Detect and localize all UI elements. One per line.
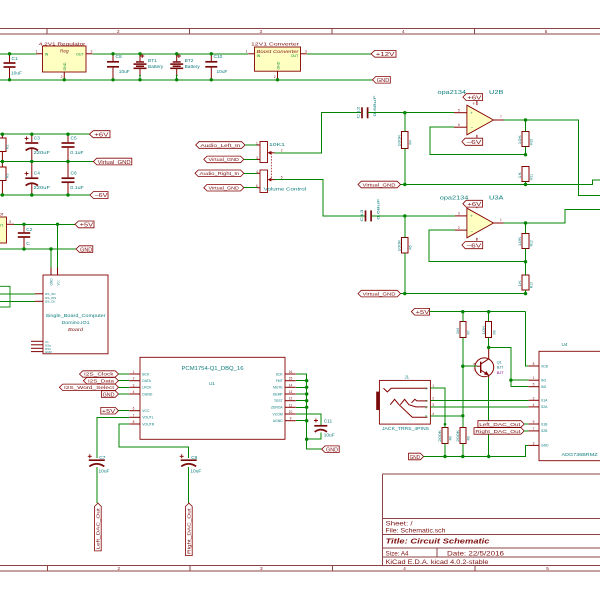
resistor R9 bbox=[456, 428, 471, 457]
svg-text:J1: J1 bbox=[405, 374, 410, 379]
svg-text:Virtual_GND: Virtual_GND bbox=[209, 186, 240, 191]
wire Virtual_GND row lower bbox=[401, 293, 526, 295]
svg-text:C10: C10 bbox=[214, 54, 223, 60]
wire collector to IN1/IN2 bbox=[489, 348, 529, 387]
global label Audio_Left_In bbox=[196, 142, 260, 149]
svg-text:GND: GND bbox=[63, 62, 67, 70]
svg-text:ADG736BRMZ: ADG736BRMZ bbox=[562, 452, 598, 457]
svg-text:PCM1754-Q1_DBQ_16: PCM1754-Q1_DBQ_16 bbox=[182, 366, 244, 372]
svg-text:Reg: Reg bbox=[60, 48, 69, 54]
svg-text:R13: R13 bbox=[530, 282, 534, 288]
svg-text:R8: R8 bbox=[449, 436, 453, 440]
svg-text:220uF: 220uF bbox=[34, 150, 51, 156]
junction dots U3A bbox=[403, 214, 527, 295]
svg-text:C4: C4 bbox=[34, 171, 40, 177]
capacitor C9 bbox=[180, 454, 202, 503]
op-amp U2B bbox=[438, 90, 505, 142]
svg-text:C2: C2 bbox=[26, 227, 32, 233]
svg-text:−6V: −6V bbox=[466, 243, 482, 249]
wire bottom GND rail bbox=[0, 79, 373, 81]
svg-text:4: 4 bbox=[402, 29, 405, 34]
svg-text:16: 16 bbox=[289, 370, 293, 374]
svg-text:AGND: AGND bbox=[273, 419, 283, 423]
svg-text:2: 2 bbox=[274, 75, 276, 79]
global label Virtual_GND (pot 2) bbox=[204, 184, 260, 191]
resistor R4 bbox=[398, 113, 413, 185]
power flag +6V (U3A) bbox=[463, 200, 483, 208]
svg-text:U3A: U3A bbox=[489, 195, 504, 201]
svg-text:2: 2 bbox=[118, 566, 121, 571]
svg-text:GND: GND bbox=[541, 444, 549, 448]
wire Virtual_GND rail bbox=[0, 161, 93, 163]
svg-text:4: 4 bbox=[133, 390, 135, 394]
pot gang link bbox=[270, 153, 272, 179]
wire U2B output bbox=[504, 120, 600, 196]
svg-text:C9: C9 bbox=[191, 455, 197, 461]
power flag +6V (U2B) bbox=[463, 94, 483, 102]
svg-text:Size: A4: Size: A4 bbox=[386, 551, 410, 557]
U1 left pin stubs bbox=[129, 370, 140, 424]
svg-text:or: or bbox=[0, 212, 4, 218]
svg-text:R5: R5 bbox=[409, 245, 413, 249]
svg-text:U1: U1 bbox=[209, 381, 215, 386]
svg-text:+12V: +12V bbox=[376, 52, 395, 58]
svg-text:4.2V1 Regulator: 4.2V1 Regulator bbox=[39, 41, 86, 47]
svg-text:IN: IN bbox=[257, 54, 261, 58]
svg-text:Domino.IO1: Domino.IO1 bbox=[62, 320, 91, 325]
svg-text:R9: R9 bbox=[466, 436, 470, 440]
global label Right_DAC_Out (vertical) bbox=[186, 503, 193, 555]
transistor Q1 bbox=[463, 349, 504, 457]
svg-text:1: 1 bbox=[36, 50, 38, 54]
svg-text:4: 4 bbox=[256, 170, 258, 174]
svg-text:9: 9 bbox=[290, 417, 292, 421]
svg-text:ZEROA: ZEROA bbox=[271, 406, 283, 410]
svg-text:IN1: IN1 bbox=[541, 379, 546, 383]
svg-text:3: 3 bbox=[256, 156, 258, 160]
svg-text:MUTE: MUTE bbox=[273, 386, 283, 390]
wire VOUTL to C7 bbox=[97, 417, 129, 458]
capacitor C6 bbox=[62, 162, 84, 196]
svg-text:T: T bbox=[425, 399, 427, 403]
power flag +5V (VCC pin) bbox=[101, 407, 129, 415]
svg-text:R2: R2 bbox=[6, 145, 10, 149]
wire jack sleeve to R8 bbox=[430, 388, 445, 424]
wire jack tip to S1A bbox=[430, 399, 528, 401]
svg-text:3: 3 bbox=[260, 29, 263, 34]
svg-text:10: 10 bbox=[289, 410, 293, 414]
svg-text:Right_DAC_Out: Right_DAC_Out bbox=[187, 508, 192, 554]
svg-text:3: 3 bbox=[91, 50, 93, 54]
svg-text:S: S bbox=[425, 386, 427, 390]
svg-text:GND: GND bbox=[410, 455, 421, 461]
svg-text:B: B bbox=[474, 362, 476, 366]
svg-text:4: 4 bbox=[403, 566, 406, 571]
junction dots U1 gnd bus bbox=[305, 379, 308, 441]
svg-text:3: 3 bbox=[260, 566, 263, 571]
wire U1 gnd bus vertical bbox=[296, 374, 307, 439]
resistor R11 bbox=[518, 167, 534, 185]
audio jack J1 bbox=[376, 374, 434, 431]
svg-text:R3: R3 bbox=[6, 174, 10, 178]
svg-text:C6: C6 bbox=[71, 171, 77, 177]
svg-text:C3: C3 bbox=[34, 136, 40, 142]
svg-text:+5V: +5V bbox=[416, 310, 430, 316]
wire to GND flag under U1 bbox=[307, 439, 322, 449]
svg-text:C8: C8 bbox=[116, 54, 122, 60]
svg-text:100K: 100K bbox=[398, 238, 402, 251]
capacitor C1 bbox=[4, 54, 23, 80]
regulator REG 4.2V1 bbox=[36, 41, 93, 79]
svg-text:VCOM: VCOM bbox=[273, 412, 283, 416]
svg-text:DATA: DATA bbox=[142, 379, 151, 383]
svg-text:R11: R11 bbox=[530, 174, 534, 180]
wire VCOM to C11 bbox=[296, 414, 321, 425]
svg-text:S1A: S1A bbox=[541, 399, 548, 403]
wire I2S data lines bbox=[0, 293, 35, 295]
svg-text:SCK: SCK bbox=[276, 372, 284, 376]
svg-text:10uF: 10uF bbox=[324, 432, 335, 438]
svg-text:2: 2 bbox=[458, 226, 460, 230]
svg-text:opa2134: opa2134 bbox=[438, 90, 467, 96]
battery BT2 bbox=[170, 54, 200, 80]
svg-text:+5V: +5V bbox=[80, 223, 94, 229]
svg-text:+: + bbox=[470, 110, 473, 115]
svg-text:Virtual_GND: Virtual_GND bbox=[209, 157, 240, 162]
svg-text:Single_Board_Computer: Single_Board_Computer bbox=[46, 313, 107, 318]
svg-text:C11: C11 bbox=[324, 419, 333, 425]
svg-text:DGND: DGND bbox=[142, 392, 153, 396]
wire -6V rail bbox=[0, 194, 90, 196]
power flag Virtual_GND (left) bbox=[93, 158, 131, 166]
svg-text:BT1: BT1 bbox=[148, 58, 157, 64]
svg-text:7: 7 bbox=[500, 115, 502, 119]
wire +6V rail bbox=[0, 133, 90, 135]
svg-text:R7: R7 bbox=[466, 330, 470, 334]
wire jack pin4 bbox=[430, 415, 462, 417]
svg-text:I2S_Word_Select: I2S_Word_Select bbox=[64, 385, 115, 390]
svg-text:10K: 10K bbox=[518, 134, 522, 145]
svg-text:1: 1 bbox=[533, 376, 535, 380]
svg-text:3: 3 bbox=[533, 441, 535, 445]
potentiometer 10K1 section B bbox=[256, 170, 306, 193]
global label Left_DAC_Out (vertical) bbox=[95, 503, 102, 551]
wire U3A output bbox=[504, 209, 600, 223]
svg-text:R6: R6 bbox=[492, 330, 496, 334]
resistor R6 bbox=[482, 312, 497, 349]
svg-text:Q1: Q1 bbox=[497, 361, 502, 365]
wire top rail mid bbox=[92, 53, 248, 55]
wire wiper A to C12 bbox=[275, 113, 362, 153]
capacitor C11 bbox=[307, 419, 335, 440]
svg-text:GND: GND bbox=[80, 247, 92, 253]
global label Audio_Right_In bbox=[195, 170, 260, 177]
power flag +5V (right) bbox=[411, 308, 430, 316]
svg-text:S2A: S2A bbox=[541, 405, 548, 409]
svg-text:IN: IN bbox=[45, 53, 49, 57]
svg-text:C5: C5 bbox=[71, 136, 77, 142]
svg-text:Volume Control: Volume Control bbox=[264, 187, 307, 193]
wire C12 to op-amp input bbox=[368, 112, 454, 114]
wire TEST row bbox=[296, 400, 307, 402]
svg-text:3: 3 bbox=[458, 212, 460, 216]
svg-text:Virtual_GND: Virtual_GND bbox=[363, 182, 397, 187]
svg-text:VDD: VDD bbox=[541, 364, 549, 368]
power flag -6V bbox=[90, 192, 108, 200]
svg-text:FMT: FMT bbox=[276, 379, 283, 383]
resistor R12 bbox=[518, 223, 534, 262]
svg-text:GND: GND bbox=[326, 447, 338, 453]
svg-text:200K: 200K bbox=[456, 429, 460, 442]
svg-text:10uF: 10uF bbox=[217, 69, 228, 75]
svg-text:I2S_Clock: I2S_Clock bbox=[84, 372, 114, 377]
svg-text:1M: 1M bbox=[456, 328, 460, 334]
svg-text:10K1: 10K1 bbox=[269, 142, 286, 147]
svg-text:R10: R10 bbox=[530, 139, 534, 145]
wire jack ring to S2A bbox=[430, 406, 528, 408]
svg-text:11: 11 bbox=[289, 403, 293, 407]
capacitor C4 bbox=[25, 162, 50, 196]
svg-text:15: 15 bbox=[289, 377, 293, 381]
svg-text:VOUTL: VOUTL bbox=[142, 416, 153, 420]
wire DEMP row bbox=[296, 393, 307, 395]
global label Right_DAC_Out (to U4) bbox=[474, 428, 529, 435]
svg-text:C13: C13 bbox=[359, 208, 364, 221]
svg-text:U2B: U2B bbox=[489, 90, 504, 96]
power flag GND (bottom right) bbox=[409, 453, 424, 461]
resistor R7 bbox=[456, 312, 471, 428]
svg-text:R4: R4 bbox=[409, 140, 413, 144]
wire wiper B to C13 bbox=[275, 180, 365, 216]
svg-text:Battery: Battery bbox=[148, 64, 164, 70]
svg-text:Vcc: Vcc bbox=[56, 280, 60, 286]
svg-text:opa2134: opa2134 bbox=[440, 195, 469, 201]
resistor R2 bbox=[0, 134, 10, 161]
svg-text:−6V: −6V bbox=[466, 140, 482, 146]
resistor R10 bbox=[518, 120, 534, 155]
capacitor C12 bbox=[356, 95, 377, 119]
capacitor C7 bbox=[88, 454, 110, 503]
junction dots U2B bbox=[403, 111, 527, 186]
svg-text:2: 2 bbox=[533, 396, 535, 400]
resistor R8 bbox=[438, 424, 453, 456]
svg-text:5: 5 bbox=[281, 176, 283, 180]
capacitor C5 bbox=[62, 134, 84, 161]
global label I2S_Data bbox=[83, 378, 129, 384]
svg-text:7: 7 bbox=[533, 427, 535, 431]
power flag GND (under U1) bbox=[322, 446, 340, 454]
power flag +5V bbox=[75, 221, 94, 229]
svg-text:14: 14 bbox=[289, 383, 293, 387]
resistor R3 bbox=[0, 162, 10, 196]
wire ZEROA row bbox=[296, 406, 307, 408]
svg-text:9: 9 bbox=[533, 420, 535, 424]
svg-text:5: 5 bbox=[545, 29, 548, 34]
global label I2S_Clock bbox=[80, 371, 130, 377]
svg-text:−: − bbox=[471, 228, 474, 233]
svg-text:1: 1 bbox=[256, 142, 258, 146]
wire +5V bbox=[14, 223, 75, 225]
wire Virtual_GND row upper bbox=[401, 180, 600, 184]
wire VOUTR to C9 bbox=[119, 424, 189, 458]
svg-text:3: 3 bbox=[305, 50, 307, 54]
wire GND row bbox=[0, 248, 76, 250]
svg-text:10K: 10K bbox=[518, 235, 522, 246]
svg-text:100K: 100K bbox=[398, 133, 402, 146]
svg-text:220uF: 220uF bbox=[34, 185, 51, 191]
svg-text:12: 12 bbox=[289, 397, 293, 401]
svg-text:R12: R12 bbox=[530, 240, 534, 246]
svg-text:R: R bbox=[425, 414, 427, 418]
svg-text:GND: GND bbox=[49, 278, 53, 286]
svg-text:200K: 200K bbox=[438, 429, 442, 442]
svg-text:10uF: 10uF bbox=[119, 69, 130, 75]
svg-text:BCK: BCK bbox=[142, 372, 150, 376]
svg-text:LRCK: LRCK bbox=[142, 386, 152, 390]
wire U3A feedback bbox=[429, 230, 526, 262]
wire AGND row bbox=[296, 420, 307, 422]
svg-text:U4: U4 bbox=[562, 342, 568, 347]
regulator (cut at left edge) bbox=[0, 212, 14, 243]
global label Left_DAC_Out (to U4) bbox=[478, 421, 529, 428]
svg-text:S2B: S2B bbox=[541, 429, 548, 433]
svg-text:I2S_Data: I2S_Data bbox=[88, 378, 115, 383]
wire U2B feedback bbox=[430, 127, 526, 155]
power flag GND (5V area) bbox=[76, 246, 93, 254]
svg-text:Battery: Battery bbox=[185, 64, 201, 70]
svg-text:+6V: +6V bbox=[94, 132, 109, 138]
svg-text:8: 8 bbox=[133, 420, 135, 424]
svg-text:Board: Board bbox=[68, 327, 84, 332]
capacitor C13 bbox=[359, 198, 380, 222]
svg-text:+: + bbox=[470, 214, 473, 219]
wire GND row bottom bbox=[424, 445, 529, 456]
svg-text:5: 5 bbox=[458, 108, 460, 112]
global label I2S_Word_Select bbox=[59, 384, 129, 390]
svg-text:1: 1 bbox=[500, 218, 502, 222]
connector (cut, left edge) bbox=[0, 286, 10, 307]
op-amp U3A bbox=[440, 195, 505, 240]
capacitor C3 bbox=[25, 134, 50, 161]
svg-text:BJT: BJT bbox=[497, 365, 504, 369]
SBC board U box bbox=[31, 268, 108, 355]
svg-text:2: 2 bbox=[117, 29, 120, 34]
battery BT1 bbox=[134, 54, 164, 80]
U1 right pin stubs bbox=[285, 370, 296, 421]
svg-text:3: 3 bbox=[9, 220, 11, 224]
power flag GND (DGND pin) bbox=[101, 391, 129, 399]
U1 box bbox=[140, 357, 285, 439]
svg-text:File: Schematic.sch: File: Schematic.sch bbox=[386, 529, 446, 535]
svg-text:−6V: −6V bbox=[94, 193, 108, 199]
svg-text:1: 1 bbox=[246, 50, 248, 54]
global label Virtual_GND (lower right) bbox=[358, 290, 401, 297]
svg-text:S1B: S1B bbox=[541, 422, 548, 426]
svg-text:1: 1 bbox=[133, 370, 135, 374]
svg-text:10uF: 10uF bbox=[190, 469, 201, 475]
svg-text:Virtual_GND: Virtual_GND bbox=[98, 160, 131, 166]
resistor R13 bbox=[518, 262, 534, 294]
svg-text:Audio_Right_In: Audio_Right_In bbox=[200, 171, 240, 176]
wire +5V rail right bbox=[430, 311, 526, 313]
power flag -6V (U3A) bbox=[462, 242, 483, 250]
junction dots top chain bbox=[8, 52, 279, 81]
capacitor C10 bbox=[205, 54, 227, 80]
svg-text:C7: C7 bbox=[99, 455, 105, 461]
svg-text:Date: 22/5/2016: Date: 22/5/2016 bbox=[447, 551, 505, 557]
svg-text:8: 8 bbox=[533, 362, 535, 366]
svg-text:BJT: BJT bbox=[497, 371, 504, 375]
svg-text:5: 5 bbox=[546, 566, 549, 571]
svg-text:−: − bbox=[471, 125, 474, 130]
svg-text:GND: GND bbox=[277, 61, 281, 69]
junction dots bottom right bbox=[443, 310, 512, 458]
svg-text:Sheet: /: Sheet: / bbox=[386, 522, 413, 528]
svg-text:BT2: BT2 bbox=[185, 58, 194, 64]
svg-text:+5V: +5V bbox=[102, 409, 116, 415]
svg-text:Left_DAC_Out: Left_DAC_Out bbox=[96, 507, 101, 549]
wire top rail to +12V bbox=[307, 53, 371, 55]
svg-text:12V1 Converter: 12V1 Converter bbox=[251, 41, 300, 47]
svg-text:C: C bbox=[26, 241, 30, 247]
svg-text:2: 2 bbox=[61, 75, 63, 79]
wire +5V to VDD bbox=[525, 312, 528, 366]
power flag GND (top chain) bbox=[373, 77, 391, 85]
svg-text:3: 3 bbox=[133, 383, 135, 387]
capacitor C2 bbox=[18, 224, 33, 249]
svg-text:DEMP: DEMP bbox=[273, 392, 284, 396]
wire FMT row bbox=[296, 380, 307, 382]
svg-text:0.1uF: 0.1uF bbox=[70, 150, 84, 156]
svg-text:C1: C1 bbox=[12, 56, 18, 62]
svg-text:Audio_Left_In: Audio_Left_In bbox=[200, 143, 241, 148]
svg-text:6: 6 bbox=[256, 184, 258, 188]
svg-text:Left_DAC_Out: Left_DAC_Out bbox=[479, 422, 521, 427]
junction dots 6V rails bbox=[1, 133, 70, 197]
svg-text:OUT: OUT bbox=[291, 54, 299, 58]
boost converter 12V1 bbox=[246, 41, 307, 79]
resistor R5 bbox=[398, 216, 413, 294]
svg-text:KiCad E.D.A. kicad 4.0.2-stab: KiCad E.D.A. kicad 4.0.2-stable bbox=[386, 560, 490, 566]
svg-text:GND: GND bbox=[103, 392, 115, 398]
power flag +6V bbox=[90, 131, 111, 139]
svg-text:TEST: TEST bbox=[274, 399, 283, 403]
wire C13 to op-amp input bbox=[371, 215, 455, 217]
title block bbox=[382, 474, 600, 566]
svg-text:IN2: IN2 bbox=[541, 385, 546, 389]
potentiometer 10K1 section A bbox=[256, 142, 286, 163]
analog switch U4 ADG736BRMZ bbox=[529, 342, 600, 461]
svg-text:0.68uF: 0.68uF bbox=[372, 95, 377, 117]
wire GND drop to SBC bbox=[50, 249, 52, 268]
svg-text:Virtual_GND: Virtual_GND bbox=[363, 292, 397, 297]
global label Virtual_GND (upper right) bbox=[358, 181, 401, 188]
svg-text:6: 6 bbox=[133, 407, 135, 411]
svg-text:10K: 10K bbox=[482, 324, 486, 335]
svg-text:6: 6 bbox=[458, 123, 460, 127]
power flag -6V (U2B) bbox=[462, 138, 483, 146]
junction dots 5V area bbox=[22, 223, 59, 251]
svg-text:GND: GND bbox=[45, 350, 53, 354]
wire IN1 row bbox=[511, 379, 529, 381]
svg-text:Title: Circuit Schematic: Title: Circuit Schematic bbox=[386, 537, 491, 546]
svg-text:2: 2 bbox=[281, 149, 283, 153]
global label Virtual_GND (pot 1) bbox=[204, 156, 260, 163]
wire MUTE row bbox=[296, 386, 307, 388]
svg-text:VCC: VCC bbox=[142, 409, 150, 413]
power flag +12V bbox=[371, 50, 396, 58]
svg-text:JACK_TRRS_4PINS: JACK_TRRS_4PINS bbox=[382, 426, 429, 431]
